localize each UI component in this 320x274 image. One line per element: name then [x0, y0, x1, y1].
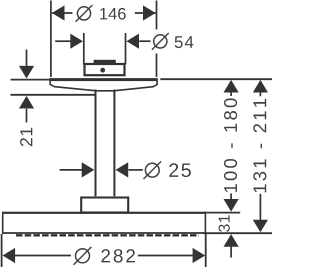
dimension Ø146 right extension line upper — [156, 1, 158, 30]
label Ø282 value — [101, 249, 134, 263]
shower disc top border — [2, 212, 206, 214]
ceiling plate underside outline — [50, 81, 157, 91]
label Ø54 value — [175, 36, 194, 48]
pipe left wall — [95, 90, 97, 197]
dimension Ø25 right arrow pointing left — [116, 162, 129, 177]
dimension Ø282 line left segment with arrow — [3, 248, 16, 263]
escutcheon top strip — [94, 60, 116, 63]
dimension 31 lower arrow pointing up — [224, 234, 239, 247]
label Ø282 diameter symbol — [74, 247, 92, 265]
extension line plate top leftwards — [11, 79, 50, 81]
extension line disc top rightwards — [206, 212, 240, 214]
dimension Ø146 right extension line lower — [156, 54, 158, 78]
label 21 rotated — [20, 128, 32, 146]
label 31 rotated — [219, 215, 230, 232]
dimension 21 upper arrow pointing down — [26, 50, 28, 68]
label Ø146 value — [100, 8, 125, 20]
dimension Ø54 right extension line — [125, 33, 127, 65]
ceiling plate top bar — [49, 78, 158, 81]
shower disc bottom edge — [2, 232, 206, 234]
dimension Ø146 left extension line — [50, 1, 52, 78]
label Ø25 value — [169, 163, 191, 177]
label Ø146 diameter symbol — [76, 5, 93, 22]
dimension Ø282 line right segment with arrow — [138, 255, 194, 257]
label Ø54 diameter symbol — [152, 33, 169, 50]
ceiling reference line rightwards — [160, 78, 272, 80]
dimension Ø54 left arrow pointing right — [55, 40, 70, 42]
escutcheon box — [85, 64, 125, 75]
extension line plate underside leftwards — [11, 94, 96, 96]
dimension Ø54 right arrow pointing left — [126, 34, 139, 49]
dimension 21 lower arrow pointing up — [19, 96, 34, 109]
label Ø25 diameter symbol — [144, 161, 162, 179]
pipe right wall — [113, 90, 115, 197]
dimension Ø282 left extension line — [1, 234, 3, 267]
dimension Ø282 right extension line — [205, 234, 207, 267]
dimension Ø146 line left segment with arrow — [52, 12, 73, 14]
nozzle face dashed line — [16, 234, 199, 236]
shower disc right edge — [204, 212, 206, 234]
extension line disc bottom rightwards — [203, 232, 272, 234]
dimension Ø25 left arrow pointing right — [60, 169, 83, 171]
label 100-180 rotated — [224, 98, 237, 192]
pedestal block — [81, 198, 128, 213]
shower disc left edge — [2, 212, 4, 234]
dimension Ø146 line right segment with arrow — [135, 12, 156, 14]
dimension 100-180 bottom arrow pointing down — [230, 194, 232, 200]
dimension Ø54 left extension line — [83, 33, 85, 65]
escutcheon screw dot — [100, 68, 105, 73]
dimension 131-211 top arrow pointing up — [253, 80, 268, 93]
dimension 131-211 bottom arrow pointing down — [259, 194, 261, 220]
label 131-211 rotated — [253, 99, 266, 193]
dimension 100-180 top arrow pointing up — [224, 80, 239, 93]
